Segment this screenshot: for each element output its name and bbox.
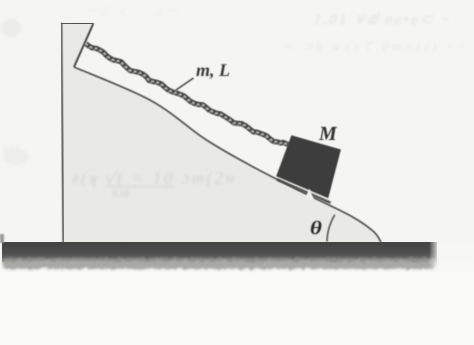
svg-text:∼ ⊃h wnɔ⊤ ∂m∩(s) −−: ∼ ⊃h wnɔ⊤ ∂m∩(s) −− [282, 39, 469, 54]
ground bar [0, 234, 438, 270]
svg-text:1.01 ∨ⅆ ne•ɒ⊂ −: 1.01 ∨ⅆ ne•ɒ⊂ − [314, 12, 453, 28]
angle arc [327, 215, 335, 242]
wall upper-right edge (incline top cap) [74, 24, 93, 67]
dark merged band under block [277, 179, 331, 203]
ground bar ragged fade (upper) [3, 258, 436, 265]
svg-text:10 k: 10 k [2, 143, 22, 155]
ghost print-through equation inside incline [72, 169, 237, 200]
block M [276, 135, 341, 198]
svg-text:ƨ(ʞ ƴ( = 10 ɔm(2ʜ: ƨ(ʞ ƴ( = 10 ɔm(2ʜ [72, 169, 237, 188]
pointer line from label to chain [176, 78, 194, 90]
wall top edge [61, 22, 94, 24]
ground bar left-end smudge [0, 234, 4, 243]
svg-text:9.18: 9.18 [112, 190, 129, 200]
faint streak below bar [122, 278, 330, 281]
svg-text:M: M [318, 123, 338, 145]
wall left edge [62, 23, 64, 243]
ghost print-through text top right [282, 12, 469, 54]
ground bar body [2, 242, 437, 262]
faint scan blotches [1, 3, 182, 165]
svg-text:∼⊥ c∟ ⊥∼: ∼⊥ c∟ ⊥∼ [86, 3, 182, 17]
ground bar ragged fade (lower) [3, 261, 436, 269]
svg-text:m, L: m, L [196, 60, 230, 80]
chain (mass m, length L) from wall to block [86, 44, 289, 147]
white notch at block bottom [305, 189, 314, 200]
ground surface top edge [2, 242, 437, 244]
wall and incline filled region [62, 23, 382, 243]
chain body stroke [86, 44, 289, 145]
svg-text:θ: θ [310, 218, 322, 239]
incline hypotenuse [74, 67, 381, 242]
ground bar right-end fade [429, 240, 438, 270]
